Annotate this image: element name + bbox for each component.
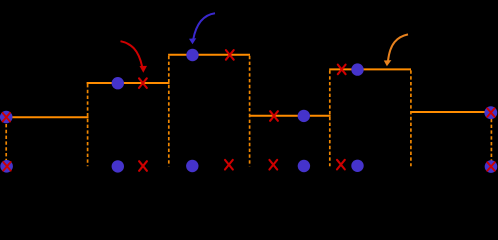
dashed drop below right endpoint <box>490 113 492 161</box>
axis X mark x=143 <box>139 161 147 171</box>
dashed riser at x=87.6 <box>87 84 89 166</box>
step segment 2 <box>87 82 170 84</box>
axis dot x=192.3 <box>186 160 198 172</box>
dashed drop below left endpoint <box>5 118 7 161</box>
orange annotation arrow head <box>384 60 392 66</box>
axis X mark x=273.2 <box>269 160 277 170</box>
X over right endpoint dot <box>487 108 494 117</box>
dashed riser at x=168.8 <box>168 56 170 167</box>
dashed riser at x=249.6 <box>249 56 251 167</box>
axis X mark x=229 <box>225 160 233 170</box>
left endpoint dot <box>0 111 13 124</box>
red annotation arrow shaft <box>121 41 143 67</box>
right endpoint dot <box>484 106 497 119</box>
axis dot x=303.9 <box>298 160 310 172</box>
point dot on segment 2 <box>112 77 124 89</box>
X mark on segment 5 <box>338 65 346 75</box>
X over axis dot below left endpoint <box>3 162 10 171</box>
X over axis dot below right endpoint <box>487 162 494 171</box>
X mark on segment 4 <box>270 111 278 121</box>
axis dot x=357.5 <box>351 160 363 172</box>
point dot on segment 3 <box>186 49 198 61</box>
step segment 4 <box>249 115 331 117</box>
red annotation arrow head <box>140 66 148 73</box>
X over left endpoint dot <box>3 113 10 122</box>
axis dot below right endpoint <box>485 160 498 173</box>
blue annotation arrow head <box>189 38 196 44</box>
axis X mark x=341 <box>337 160 345 170</box>
point dot on segment 5 <box>351 63 363 75</box>
X mark on segment 3 <box>226 50 234 60</box>
dashed riser at x=410.9 <box>410 70 412 166</box>
blue annotation arrow shaft <box>193 13 215 39</box>
step segment 1 <box>6 116 89 118</box>
point dot on segment 4 <box>298 110 310 122</box>
axis dot below left endpoint <box>0 160 13 173</box>
step segment 3 <box>168 54 250 56</box>
step segment 5 <box>329 68 411 70</box>
step segment 6 <box>411 111 491 113</box>
orange annotation arrow shaft <box>388 34 408 60</box>
X mark on segment 2 <box>139 78 147 88</box>
axis dot x=117.8 <box>112 160 124 172</box>
dashed riser at x=329.8 <box>329 70 331 166</box>
